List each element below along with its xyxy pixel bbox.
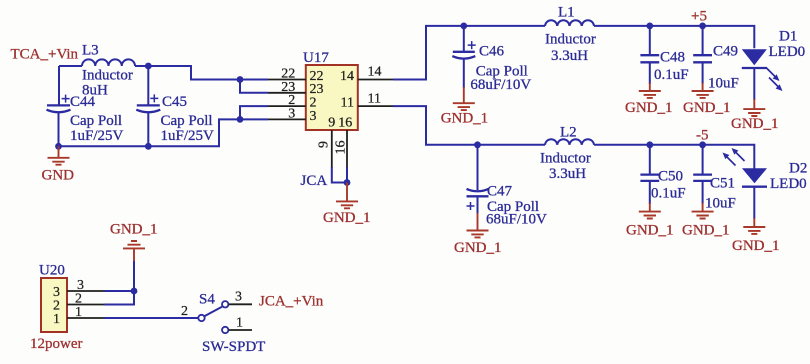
svg-text:U20: U20	[39, 263, 65, 279]
node junction C44 bottom	[55, 143, 62, 150]
svg-text:14: 14	[340, 69, 354, 84]
net label JCA_+Vin	[259, 294, 324, 310]
svg-text:LED0: LED0	[770, 176, 807, 192]
wire JCA elbow	[332, 172, 347, 183]
wire pin11 net to -5 rail	[393, 106, 754, 168]
svg-text:16: 16	[338, 116, 352, 131]
node junction C51 / -5	[699, 141, 706, 148]
svg-text:GND_1: GND_1	[110, 222, 158, 238]
node junction C50	[646, 141, 653, 148]
svg-text:C46: C46	[479, 44, 505, 60]
switch S4	[181, 292, 265, 356]
capacitor C49	[693, 26, 739, 92]
svg-text:3: 3	[310, 109, 317, 124]
ground GND_1 under U17	[323, 183, 371, 226]
svg-text:3: 3	[235, 290, 242, 305]
pin 2	[268, 93, 306, 108]
svg-text:-5: -5	[696, 128, 709, 144]
svg-text:0.1uF: 0.1uF	[654, 67, 689, 83]
svg-text:68uF/10V: 68uF/10V	[486, 212, 547, 228]
svg-text:0.1uF: 0.1uF	[651, 186, 686, 202]
connector U20	[30, 263, 83, 353]
svg-text:16: 16	[334, 141, 349, 155]
svg-text:LED0: LED0	[769, 44, 806, 60]
svg-text:GND_1: GND_1	[454, 240, 502, 256]
svg-text:3: 3	[288, 106, 295, 121]
svg-text:9: 9	[317, 141, 332, 148]
node junction C48	[646, 23, 653, 30]
ground GND_1 under D2	[732, 218, 780, 254]
wire L3 to U17 pins 22/23	[135, 66, 268, 93]
svg-text:3.3uH: 3.3uH	[549, 166, 586, 182]
ground GND_1 under C50	[626, 203, 674, 238]
ground GND_1 under C51	[682, 203, 730, 238]
svg-text:1: 1	[236, 316, 243, 331]
pin 1 of U20	[67, 305, 104, 320]
ground GND_1 under C48	[625, 83, 673, 116]
ground GND_1 under D1	[731, 99, 779, 132]
LED D2 arrows	[723, 148, 745, 166]
pin 23	[268, 80, 306, 95]
wire C45 branch	[147, 66, 149, 105]
node junction pin2 branch	[237, 116, 244, 123]
svg-text:L1: L1	[558, 5, 575, 21]
pin 22	[268, 67, 306, 82]
svg-text:12power: 12power	[30, 336, 83, 352]
svg-text:1: 1	[53, 312, 60, 327]
svg-text:U17: U17	[303, 50, 329, 66]
svg-text:1uF/25V: 1uF/25V	[70, 128, 124, 144]
inductor L2	[540, 125, 594, 183]
svg-text:1: 1	[75, 305, 82, 320]
svg-text:GND: GND	[42, 167, 75, 183]
svg-text:9: 9	[328, 116, 335, 131]
svg-text:GND_1: GND_1	[626, 222, 674, 238]
svg-text:C45: C45	[162, 94, 187, 110]
svg-text:S4: S4	[199, 292, 215, 308]
svg-text:Inductor: Inductor	[540, 151, 591, 167]
node junction at C45 top	[145, 63, 152, 70]
svg-text:D2: D2	[789, 161, 807, 177]
net label GND_1 above U20	[110, 222, 158, 238]
pin 2 of U20	[67, 292, 104, 307]
node junction C45 bottom	[145, 143, 152, 150]
ground GND	[42, 146, 75, 183]
inductor L3	[82, 43, 135, 99]
ground GND_1 under C46	[441, 87, 489, 127]
svg-text:GND_1: GND_1	[732, 238, 780, 254]
svg-text:11: 11	[341, 96, 354, 111]
capacitor C50	[640, 145, 685, 204]
wire TCA_+Vin rail to L3	[59, 65, 82, 67]
svg-text:C51: C51	[710, 176, 735, 192]
pin 14	[358, 65, 393, 80]
svg-text:GND_1: GND_1	[441, 111, 489, 127]
pin 3 of S4	[229, 290, 253, 305]
wire pin14 net to +5 rail	[393, 26, 754, 80]
svg-text:TCA_+Vin: TCA_+Vin	[11, 47, 79, 63]
svg-text:C49: C49	[713, 44, 738, 60]
svg-text:JCA: JCA	[301, 173, 328, 189]
pin 1 of S4	[229, 316, 253, 331]
wire U20 pin3 to ground	[104, 290, 134, 292]
pin 3	[268, 106, 306, 121]
net label TCA_+Vin	[11, 47, 79, 63]
svg-text:68uF/10V: 68uF/10V	[470, 77, 531, 93]
svg-text:11: 11	[368, 91, 381, 106]
node junction C46	[460, 23, 467, 30]
power ground inverted above U20	[123, 241, 145, 291]
capacitor C51	[693, 145, 736, 212]
svg-text:C48: C48	[660, 50, 685, 66]
svg-text:GND_1: GND_1	[731, 116, 779, 132]
svg-text:D1: D1	[779, 29, 797, 45]
capacitor C48	[640, 26, 688, 84]
ground GND_1 under C47	[454, 213, 502, 256]
LED D2	[742, 161, 807, 220]
node junction U20 ground	[131, 288, 138, 295]
svg-text:GND_1: GND_1	[323, 210, 371, 226]
svg-text:Cap Poll: Cap Poll	[161, 113, 213, 129]
svg-text:C47: C47	[487, 184, 513, 200]
LED D1 arrows	[766, 68, 783, 92]
svg-text:SW-SPDT: SW-SPDT	[202, 339, 265, 355]
pin 9	[317, 130, 332, 172]
node junction pin22 branch	[237, 76, 244, 83]
svg-text:GND_1: GND_1	[682, 222, 730, 238]
svg-text:Inductor: Inductor	[545, 32, 596, 48]
svg-text:2: 2	[181, 304, 188, 319]
svg-text:L2: L2	[560, 125, 577, 141]
svg-text:Inductor: Inductor	[82, 68, 133, 84]
wire C44 branch	[58, 66, 60, 105]
svg-text:GND_1: GND_1	[625, 100, 673, 116]
net label +5	[691, 9, 707, 25]
svg-text:C44: C44	[70, 94, 96, 110]
net label -5	[696, 128, 709, 144]
svg-text:Cap Poll: Cap Poll	[70, 113, 122, 129]
capacitor C45	[136, 94, 214, 146]
pin 11	[358, 91, 393, 106]
wire ground rail to U17 pins 2/3	[59, 106, 269, 146]
wire U20 pin2 to ground	[104, 291, 134, 305]
capacitor C46	[452, 26, 531, 93]
net label JCA	[301, 173, 328, 189]
svg-text:L3: L3	[82, 43, 99, 59]
svg-text:GND_1: GND_1	[683, 100, 731, 116]
capacitor C44	[47, 94, 124, 146]
op-amp U17	[303, 50, 358, 131]
svg-text:14: 14	[368, 65, 382, 80]
LED D1	[742, 29, 805, 101]
node junction C47	[474, 141, 481, 148]
svg-text:C50: C50	[658, 169, 683, 185]
svg-text:10uF: 10uF	[705, 196, 736, 212]
svg-text:JCA_+Vin: JCA_+Vin	[259, 294, 324, 310]
svg-text:3.3uH: 3.3uH	[551, 48, 588, 64]
wire U20 pin1 to S4	[104, 317, 198, 319]
pin 3 of U20	[67, 278, 104, 293]
svg-text:10uF: 10uF	[708, 76, 739, 92]
svg-text:+5: +5	[691, 9, 707, 25]
pin 16	[334, 130, 349, 183]
capacitor C47	[467, 145, 548, 228]
ground GND_1 under C49	[683, 83, 731, 116]
node junction pins 9/16	[344, 179, 351, 186]
node junction C49 / +5	[699, 23, 706, 30]
inductor L1	[545, 5, 596, 65]
svg-text:1uF/25V: 1uF/25V	[161, 128, 215, 144]
